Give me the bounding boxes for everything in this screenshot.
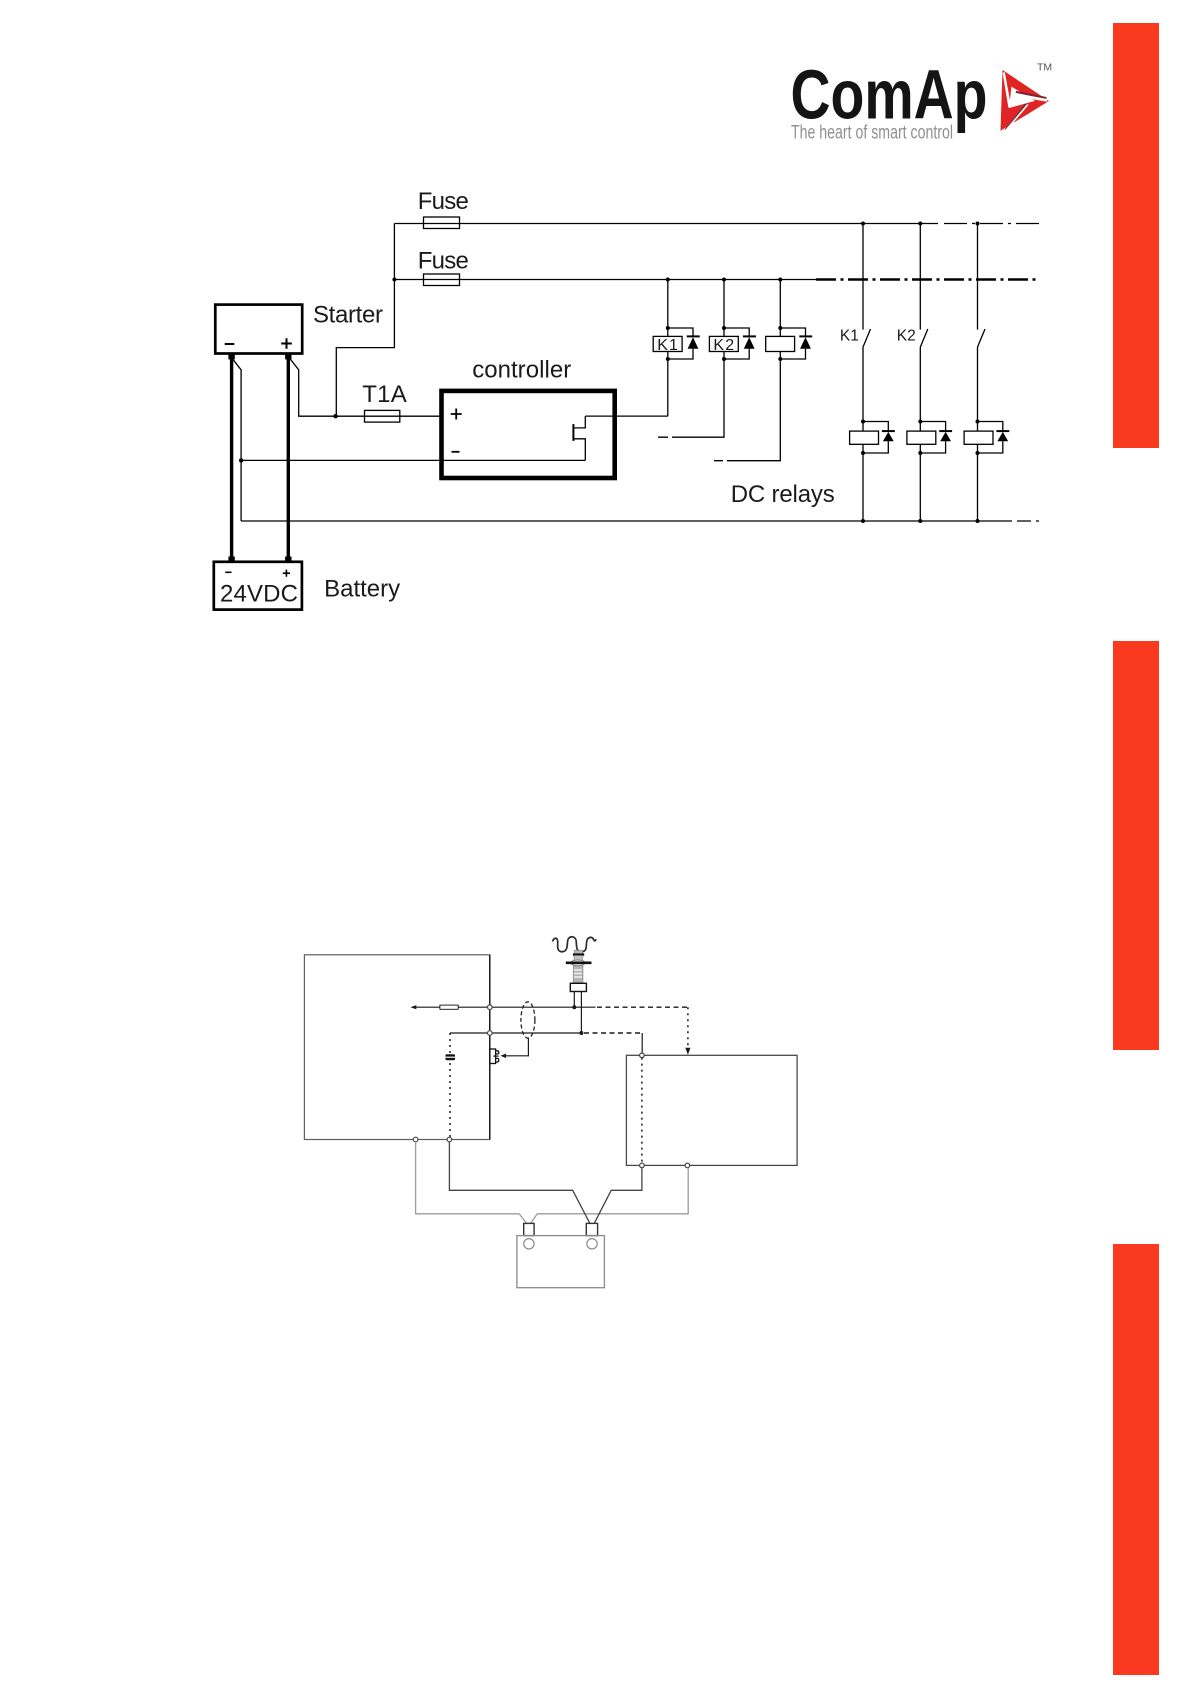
wire: controller power to battery plus <box>594 1168 642 1224</box>
node: junction K1 top on fuse line 2 <box>666 278 670 282</box>
wire: plus node to controller input <box>336 415 442 417</box>
node: junction K2 top on fuse line 2 <box>722 278 726 282</box>
ring: controller bottom terminal B <box>685 1163 690 1168</box>
relay coil R3 loop and diode branch <box>978 422 1003 454</box>
battery plus sign <box>283 570 290 577</box>
wire: R1 to minus bus <box>862 453 864 521</box>
contact K2 <box>920 224 928 422</box>
svg-text:K2: K2 <box>897 327 916 344</box>
node: junction minus rail <box>239 458 243 462</box>
fuse F1 body <box>424 217 460 229</box>
diode DR2 cathode bar <box>939 430 952 432</box>
wire: ignition line dotted to HV coil <box>597 1006 688 1008</box>
node: junction R1 on minus bus <box>861 519 865 523</box>
node: K2 coil loop top junction <box>722 326 726 330</box>
wire: R3 to minus bus <box>977 453 979 521</box>
diode DR3 triangle <box>997 432 1008 441</box>
spark plug washer disc <box>571 960 585 966</box>
wire: starter minus tap diagonal <box>233 359 241 521</box>
wire: vertical feed from fuse lines <box>336 224 394 417</box>
wire: coil line from ECU <box>450 1032 581 1034</box>
battery minus sign <box>225 571 231 573</box>
battery terminal post right <box>586 1223 597 1235</box>
spark plug top cap <box>574 951 582 955</box>
arrowhead: into ECU connector <box>500 1054 506 1058</box>
node: K1 coil loop top junction <box>666 326 670 330</box>
ring: ECU edge crossing coil line <box>488 1031 493 1036</box>
node: junction F-line1/F-line2 vertical <box>392 278 396 282</box>
wire: plug electrode left to ignition line <box>573 992 575 1008</box>
spark plug spring terminal <box>553 937 597 952</box>
battery body <box>517 1236 605 1288</box>
wire: K3 coil drop <box>779 280 781 329</box>
controller box <box>442 391 615 478</box>
node: junction electrode on coil line <box>579 1031 583 1035</box>
diode DR1 cathode bar <box>882 430 895 432</box>
spark plug hex nut bar <box>566 961 592 964</box>
svg-text:K1: K1 <box>840 327 859 344</box>
wire: K1 coil drop <box>667 280 669 329</box>
diode D2 triangle <box>744 337 755 349</box>
node: junction contact 1 on fuse line 1 <box>861 222 865 226</box>
node: relay R1 loop bottom junction <box>861 451 865 455</box>
ring: ECU edge crossing ignition line <box>488 1005 493 1010</box>
node: relay R1 loop top junction <box>861 420 865 424</box>
wire: K1 coil return to controller <box>667 359 669 416</box>
wire: battery to starter minus (bold) <box>230 358 233 558</box>
node: junction plus node at T1A <box>333 414 337 418</box>
node: K3 coil loop bottom junction <box>778 357 782 361</box>
contact K1 <box>863 224 871 422</box>
diode D1 cathode bar <box>687 335 700 337</box>
battery terminal plus (black square) <box>285 557 291 563</box>
starter plus sign <box>281 338 292 349</box>
wire: +bus second dash-dot right end <box>816 278 1039 281</box>
ECU box right edge (bus side, dark) <box>489 955 491 1140</box>
diode DR1 triangle <box>883 432 894 441</box>
transistor output stage inside controller <box>573 416 585 460</box>
controller plus sign <box>451 409 462 420</box>
wire: controller output to K1 coil <box>585 415 668 417</box>
relay coil R1 box <box>850 431 879 444</box>
fuse T1A body <box>365 410 400 422</box>
diode D3 cathode bar <box>799 335 812 337</box>
node: junction K3 top on fuse line 2 <box>778 278 782 282</box>
wire: dotted through controller box <box>641 1058 643 1163</box>
relay coil K3 loop and diode branch <box>780 328 805 359</box>
diode D2 cathode bar <box>743 335 756 337</box>
wire: R2 to minus bus <box>919 453 921 521</box>
svg-text:controller: controller <box>472 357 571 384</box>
node: relay R2 loop bottom junction <box>918 451 922 455</box>
relay coil K2 loop and diode branch <box>724 328 749 359</box>
relay coil K1 box <box>653 336 682 351</box>
node: K2 coil loop bottom junction <box>722 357 726 361</box>
node: junction contact 3 on fuse line 1 <box>976 222 980 226</box>
node: K3 coil loop top junction <box>778 326 782 330</box>
diode DR3 cathode bar <box>996 430 1009 432</box>
diode D1 triangle <box>688 337 699 349</box>
svg-text:TM: TM <box>1037 62 1052 74</box>
wire: coil line dotted to right <box>584 1032 642 1034</box>
svg-text:Fuse: Fuse <box>418 188 469 215</box>
starter minus sign <box>225 343 235 345</box>
starter box <box>215 305 302 354</box>
red sidebar bar 1 <box>1113 23 1159 448</box>
svg-text:DC relays: DC relays <box>731 481 835 508</box>
controller minus sign <box>452 451 460 453</box>
node: junction R3 on minus bus <box>976 519 980 523</box>
spark plug threaded shaft <box>573 966 583 983</box>
relay coil R3 box <box>964 431 993 444</box>
svg-text:Fuse: Fuse <box>418 248 469 275</box>
svg-text:Battery: Battery <box>324 576 400 603</box>
red sidebar bar 2 <box>1113 641 1159 1050</box>
ring: no-connect at controller top edge <box>640 1053 645 1058</box>
svg-text:Starter: Starter <box>313 302 383 329</box>
svg-text:T1A: T1A <box>362 381 407 408</box>
relay coil K2 box <box>709 336 738 351</box>
battery cell cap left <box>524 1239 534 1249</box>
node: K1 coil loop bottom junction <box>666 357 670 361</box>
capacitor gap line <box>445 1056 456 1058</box>
contact 3 (unlabelled) <box>978 224 986 422</box>
wire: V-tap left battery terminal (gray) <box>519 1214 537 1224</box>
node: junction electrode on ignition line <box>572 1005 576 1009</box>
wire: minus bottom bus dash-dot right end <box>1017 520 1040 522</box>
genset controller box (right) <box>626 1055 797 1165</box>
relay coil R2 loop and diode branch <box>920 422 945 454</box>
wire: ignition line inside ECU <box>412 1006 596 1008</box>
svg-text:The heart of smart control: The heart of smart control <box>791 123 953 144</box>
spark plug collar <box>573 953 584 955</box>
wire: pickup to connector with arrowhead <box>503 1038 528 1056</box>
svg-text:K2: K2 <box>713 337 734 354</box>
ECU box (left) <box>304 955 489 1140</box>
spark plug thread marks <box>574 970 582 977</box>
transistor gate bar <box>572 424 574 441</box>
node: relay R3 loop bottom junction <box>976 451 980 455</box>
battery cell cap right <box>587 1239 597 1249</box>
spark plug insulator block <box>570 983 586 991</box>
wire: corner down to controller top ring <box>641 1033 643 1053</box>
ring: ECU bottom terminal A <box>413 1137 418 1142</box>
ComAp red triangle mark <box>1001 70 1050 131</box>
wire: +bus top dash-dot right end <box>944 223 1039 225</box>
starter terminal plus (black square) <box>285 354 291 360</box>
wire: dash-dot sense line in ECU <box>449 1033 451 1140</box>
wire: K2 coil drop <box>723 280 725 329</box>
wire: dotted drop to controller box top <box>687 1007 689 1048</box>
wire: K2 coil return with dashed continuation <box>682 359 724 437</box>
battery terminal minus (black square) <box>228 557 234 563</box>
ring: ECU bottom terminal B <box>447 1137 452 1142</box>
spark plug upper body <box>574 956 582 961</box>
node: relay R3 loop top junction <box>976 420 980 424</box>
wire: minus bottom bus solid <box>241 520 1012 522</box>
ECU connector symbol <box>490 1049 499 1064</box>
wire: starter plus tap diagonal <box>291 359 336 416</box>
ring: controller bottom terminal A <box>640 1163 645 1168</box>
battery terminal post left <box>524 1223 534 1235</box>
capacitor blob on sense line <box>445 1054 455 1060</box>
inline fuse on ignition line <box>440 1005 458 1009</box>
wire: K3 coil return with dashed continuation <box>737 359 780 461</box>
pickup loop (CT) around lines <box>521 1002 535 1038</box>
arrowhead: ignition feed (left end) <box>411 1005 417 1009</box>
battery box 24VDC <box>214 562 302 610</box>
svg-text:K1: K1 <box>657 337 678 354</box>
starter terminal minus (black square) <box>228 354 234 360</box>
diode D3 triangle <box>800 337 811 349</box>
node: relay R2 loop top junction <box>918 420 922 424</box>
relay coil K1 loop and diode branch <box>668 328 693 359</box>
wire: ECU ground to battery minus and controller (gray) <box>416 1142 689 1214</box>
relay coil K3 box <box>766 336 795 351</box>
diode DR2 triangle <box>940 432 951 441</box>
node: junction R2 on minus bus <box>918 519 922 523</box>
arrowhead: onto controller top <box>685 1048 690 1055</box>
wire: +bus second (fuse 2 line) solid <box>394 279 816 281</box>
red sidebar bar 3 <box>1113 1244 1159 1675</box>
fuse F2 body <box>424 274 460 286</box>
relay coil R2 box <box>907 431 936 444</box>
wire: plug electrode right down to coil line <box>580 992 582 1034</box>
wire: ECU power to battery plus <box>449 1142 590 1224</box>
svg-text:24VDC: 24VDC <box>220 581 298 608</box>
wire: +bus top (fuse 1 line) solid <box>394 223 938 225</box>
relay coil R1 loop and diode branch <box>863 422 888 454</box>
node: junction contact 2 on fuse line 1 <box>918 222 922 226</box>
wire: battery to starter plus (bold) <box>287 358 290 558</box>
wire: minus rail to controller <box>241 459 585 461</box>
